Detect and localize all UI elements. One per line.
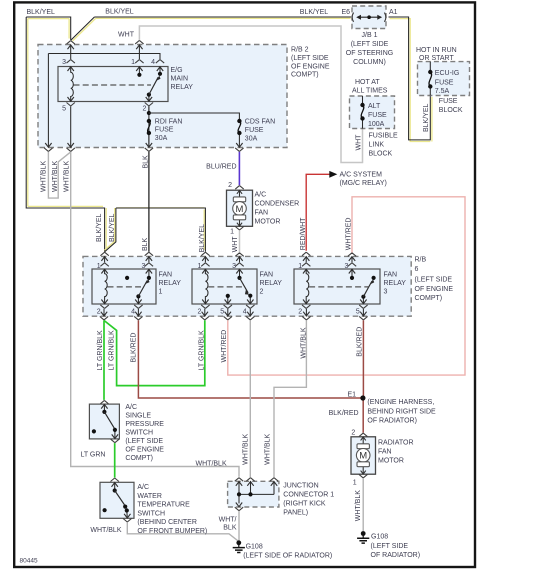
wire BLU/RED from CDS fan fuse to A/C condenser fan motor	[206, 152, 239, 186]
svg-text:BLK: BLK	[142, 155, 149, 169]
wire WHT inside R/B 2 from pin 1 node to E/G relay pin 4 and left exit	[48, 45, 160, 148]
svg-text:1: 1	[298, 263, 302, 270]
svg-text:5: 5	[220, 309, 224, 316]
connector terminals entering R/B 6 top	[100, 252, 356, 262]
wire LT GRN/BLK from fan relay 1 pin 2 to A/C single pressure switch	[97, 320, 104, 400]
svg-text:BLK/YEL: BLK/YEL	[27, 9, 56, 16]
svg-text:WHT/BLK: WHT/BLK	[41, 161, 48, 192]
E/G main relay coil (pins 3-5)	[71, 67, 74, 102]
svg-text:4: 4	[243, 309, 247, 316]
svg-text:RDI FAN: RDI FAN	[155, 118, 183, 125]
wire WHT from A/C condenser fan motor to fan relay 2 pin 3	[232, 230, 240, 252]
svg-text:FUSE: FUSE	[368, 112, 387, 119]
svg-text:5: 5	[356, 309, 360, 316]
svg-text:LT GRN/BLK: LT GRN/BLK	[199, 330, 206, 371]
svg-text:OF RADIATOR): OF RADIATOR)	[367, 418, 417, 425]
svg-text:MAIN: MAIN	[171, 76, 189, 83]
relay: fan relay 1 box	[92, 269, 181, 304]
svg-text:BLK/YEL: BLK/YEL	[199, 224, 206, 253]
svg-text:BEHIND RIGHT SIDE: BEHIND RIGHT SIDE	[367, 408, 436, 415]
svg-text:WHT/BLK: WHT/BLK	[52, 161, 59, 192]
connector terminals leaving R/B 2 bottom	[44, 143, 243, 151]
svg-text:COMPT): COMPT)	[125, 455, 153, 462]
svg-text:OR START: OR START	[419, 55, 454, 62]
E/G main relay pin terminals and numbers	[62, 59, 164, 113]
svg-text:PANEL): PANEL)	[283, 509, 308, 516]
fuse ALT 100A in fusible link block	[350, 79, 399, 158]
svg-text:3: 3	[141, 263, 145, 270]
svg-text:A/C: A/C	[255, 191, 267, 198]
svg-text:LT GRN/BLK: LT GRN/BLK	[97, 330, 104, 371]
svg-text:WHT/BLK: WHT/BLK	[196, 460, 227, 467]
svg-text:BLK/RED: BLK/RED	[131, 333, 138, 363]
fan relay 1 terminals and pin numbers	[97, 263, 153, 316]
fan relay 2 terminals and pin numbers	[197, 263, 254, 316]
svg-text:(ENGINE HARNESS,: (ENGINE HARNESS,	[367, 399, 434, 406]
fan relay 2 coil (pins 1-2)	[205, 269, 208, 304]
svg-text:WHT/BLK: WHT/BLK	[265, 433, 272, 464]
svg-text:WHT/: WHT/	[219, 516, 237, 523]
svg-text:BLK/YEL: BLK/YEL	[109, 213, 116, 242]
svg-text:2: 2	[197, 309, 201, 316]
svg-text:COMPT): COMPT)	[415, 295, 443, 302]
ground G108 (left side of radiator) at radiator fan motor	[357, 531, 420, 559]
svg-text:ALT: ALT	[368, 103, 381, 110]
svg-text:A/C SYSTEM: A/C SYSTEM	[340, 171, 383, 178]
wire WHT from ALT fuse to E/G main relay pin 1	[118, 26, 362, 163]
wire BLK/YEL from E/G main relay pin 3 to fan relay 1 pin 1 (left loop)	[26, 9, 106, 252]
svg-text:WATER: WATER	[137, 493, 162, 500]
svg-text:E1: E1	[347, 391, 356, 398]
motor: A/C condenser fan motor	[227, 182, 300, 236]
svg-text:RELAY: RELAY	[384, 280, 407, 287]
wire WHT/BLK from fan relay 2 pin 4 to junction connector 1	[242, 320, 250, 477]
E/G main relay switch (pins 4-2) with contact dots	[74, 67, 163, 102]
svg-text:COMPT): COMPT)	[291, 72, 319, 79]
svg-text:LINK: LINK	[369, 141, 385, 148]
svg-text:FUSE: FUSE	[245, 127, 264, 134]
wire BLK/RED from fan relay 3 pin 5 through node E1 to radiator fan motor	[329, 320, 364, 432]
svg-text:E6: E6	[342, 9, 351, 16]
wire WHT/BLK from junction connector 1 to ground G108	[219, 511, 239, 541]
fan relay 3 terminals and pin numbers	[298, 263, 367, 316]
svg-text:RADIATOR: RADIATOR	[378, 439, 414, 446]
svg-text:BLK/YEL: BLK/YEL	[423, 103, 430, 132]
connector terminals entering R/B 2 (pin 3 and pin 1 feeds)	[68, 40, 144, 49]
svg-text:WHT/BLK: WHT/BLK	[242, 433, 249, 464]
svg-text:(LEFT SIDE: (LEFT SIDE	[415, 276, 453, 283]
svg-text:BLOCK: BLOCK	[439, 107, 463, 114]
svg-text:LT GRN/BLK: LT GRN/BLK	[109, 330, 116, 371]
svg-text:3: 3	[62, 59, 66, 66]
svg-text:WHT/BLK: WHT/BLK	[355, 490, 362, 521]
svg-text:1: 1	[159, 289, 163, 296]
relay/junction block R/B 2 (left side of engine compt)	[38, 45, 330, 148]
svg-text:OF FRONT BUMPER): OF FRONT BUMPER)	[137, 528, 207, 535]
svg-text:E/G: E/G	[171, 67, 183, 74]
wire WHT/RED loop from fan relay 3 pin 3 to BLK/RED splice	[346, 197, 465, 375]
svg-text:M: M	[359, 451, 367, 462]
svg-text:6: 6	[415, 266, 419, 273]
svg-text:PRESSURE: PRESSURE	[125, 421, 164, 428]
svg-text:FUSE: FUSE	[435, 79, 454, 86]
svg-text:(LEFT SIDE: (LEFT SIDE	[291, 55, 329, 62]
svg-text:BLK: BLK	[223, 525, 237, 532]
svg-text:2: 2	[228, 182, 232, 189]
svg-text:80445: 80445	[20, 558, 38, 565]
svg-text:WHT: WHT	[232, 236, 239, 253]
switch: A/C water temperature switch	[100, 482, 207, 535]
in-line connector on LT GRN wire	[111, 478, 119, 482]
node: merge fork of BLK/YEL wires above R/B 2 pin 3	[67, 41, 75, 45]
svg-text:OF ENGINE: OF ENGINE	[125, 446, 164, 453]
svg-text:SWITCH: SWITCH	[137, 510, 165, 517]
fan relay 1 switch (pins 3-4) with contact dots	[108, 269, 151, 304]
svg-text:WHT/BLK: WHT/BLK	[90, 527, 121, 534]
svg-text:ALL TIMES: ALL TIMES	[352, 87, 388, 94]
fan relay 1 coil (pins 1-2)	[105, 269, 108, 304]
svg-text:BLK/RED: BLK/RED	[356, 327, 363, 357]
svg-text:G108: G108	[371, 533, 388, 540]
svg-text:1: 1	[131, 59, 135, 66]
svg-text:(BEHIND CENTER: (BEHIND CENTER	[137, 519, 197, 526]
svg-text:BLK/YEL: BLK/YEL	[105, 9, 134, 16]
wire BLK from RDI fan fuse to fan relay 1 pin 3	[142, 152, 149, 252]
svg-text:3: 3	[344, 263, 348, 270]
wire LT GRN from A/C single pressure switch to in-line connector	[80, 443, 114, 478]
svg-text:RELAY: RELAY	[159, 280, 182, 287]
wire WHT/BLK from radiator fan motor to ground G108	[355, 478, 363, 531]
wire WHT/BLK long run from E/G main relay pin 5 to junction connector 1	[64, 152, 239, 477]
svg-text:A/C: A/C	[137, 484, 149, 491]
svg-text:CONNECTOR 1: CONNECTOR 1	[283, 491, 334, 498]
svg-text:A/C: A/C	[125, 404, 137, 411]
wire BLK/YEL from J/B 1 feed, top horizontal run	[71, 9, 432, 142]
svg-text:BLK/RED: BLK/RED	[329, 410, 359, 417]
svg-text:(LEFT SIDE: (LEFT SIDE	[125, 438, 163, 445]
svg-text:2: 2	[260, 289, 264, 296]
svg-text:OF ENGINE: OF ENGINE	[415, 286, 454, 293]
node E1 (engine harness, behind right side of radiator)	[347, 391, 436, 424]
wire WHT/RED from fan relay 2 pin 5 to BLK/RED splice	[221, 320, 364, 375]
svg-text:2: 2	[298, 309, 302, 316]
fuse ECU-IG 7.5A in fuse block	[416, 47, 470, 114]
switch: A/C single pressure switch	[89, 400, 164, 461]
svg-text:(MG/C RELAY): (MG/C RELAY)	[340, 180, 387, 187]
svg-text:CDS FAN: CDS FAN	[245, 119, 275, 126]
svg-text:BLU/RED: BLU/RED	[206, 163, 236, 170]
svg-text:A1: A1	[389, 9, 398, 16]
svg-text:(LEFT SIDE: (LEFT SIDE	[371, 543, 409, 550]
svg-text:RED/WHT: RED/WHT	[300, 217, 307, 250]
svg-text:WHT: WHT	[356, 134, 363, 151]
fuse CDS FAN FUSE 30A	[149, 113, 275, 147]
svg-text:G108: G108	[246, 543, 263, 550]
svg-text:1: 1	[353, 480, 357, 487]
svg-text:30A: 30A	[245, 135, 258, 142]
wire RED/WHT from A/C system (MG/C relay) to fan relay 3 pin 1	[300, 174, 330, 251]
svg-text:BLOCK: BLOCK	[369, 150, 393, 157]
svg-text:OF RADIATOR): OF RADIATOR)	[371, 552, 421, 559]
relay: fan relay 3 box	[294, 269, 406, 304]
svg-text:R/B 2: R/B 2	[291, 47, 309, 54]
svg-text:WHT/BLK: WHT/BLK	[64, 161, 71, 192]
svg-text:RELAY: RELAY	[171, 84, 194, 91]
svg-text:4: 4	[151, 59, 155, 66]
fuse RDI FAN FUSE 30A	[147, 106, 183, 147]
svg-text:(RIGHT KICK: (RIGHT KICK	[283, 500, 326, 507]
svg-text:HOT IN RUN: HOT IN RUN	[416, 47, 457, 54]
svg-text:BLK: BLK	[142, 237, 149, 251]
svg-text:MOTOR: MOTOR	[255, 218, 281, 225]
svg-text:(LEFT SIDE: (LEFT SIDE	[351, 41, 389, 48]
svg-text:CONDENSER: CONDENSER	[255, 200, 300, 207]
arrow to A/C system (MG/C relay)	[329, 171, 387, 187]
svg-text:HOT AT: HOT AT	[355, 79, 380, 86]
connector terminals leaving R/B 6 bottom	[100, 309, 368, 320]
svg-text:RELAY: RELAY	[260, 280, 283, 287]
svg-text:3: 3	[384, 289, 388, 296]
svg-text:R/B: R/B	[415, 257, 427, 264]
svg-text:TEMPERATURE: TEMPERATURE	[137, 502, 190, 509]
svg-text:JUNCTION: JUNCTION	[283, 482, 318, 489]
svg-text:FUSE: FUSE	[155, 127, 174, 134]
motor: radiator fan motor	[351, 430, 414, 487]
svg-text:WHT/RED: WHT/RED	[221, 330, 228, 363]
svg-text:OF STEERING: OF STEERING	[346, 50, 393, 57]
svg-text:OF ENGINE: OF ENGINE	[291, 63, 330, 70]
svg-text:100A: 100A	[368, 121, 385, 128]
connector J/B 1 (left side of steering column) E6/A1	[342, 6, 398, 66]
svg-text:WHT/RED: WHT/RED	[346, 218, 353, 251]
svg-text:3: 3	[232, 263, 236, 270]
wire WHT/BLK from fan relay 3 pin 2 to junction connector 1	[265, 320, 308, 477]
svg-text:4: 4	[131, 309, 135, 316]
svg-text:2: 2	[97, 309, 101, 316]
wire BLK/RED from fan relay 1 pin 4 to node E1	[131, 320, 363, 398]
wire WHT/BLK from A/C water temperature switch to ground G108	[90, 522, 238, 541]
svg-text:J/B 1: J/B 1	[362, 32, 378, 39]
op: E/G main relay U-box	[58, 67, 193, 102]
fan relay 3 switch (pin 5 arm to open contact)	[309, 269, 376, 304]
ground G108 (left side of radiator) at junction connector	[233, 540, 333, 559]
svg-text:FAN: FAN	[159, 272, 173, 279]
svg-text:1: 1	[197, 263, 201, 270]
svg-text:7.5A: 7.5A	[435, 88, 450, 95]
svg-text:ECU-IG: ECU-IG	[435, 70, 460, 77]
svg-text:BLK/YEL: BLK/YEL	[96, 213, 103, 242]
svg-text:LT GRN: LT GRN	[80, 451, 105, 458]
svg-text:FUSIBLE: FUSIBLE	[369, 132, 399, 139]
svg-text:1: 1	[230, 228, 234, 235]
fan relay 3 coil (pins 1-2)	[306, 269, 309, 304]
svg-text:FAN: FAN	[260, 272, 274, 279]
svg-text:(LEFT SIDE OF RADIATOR): (LEFT SIDE OF RADIATOR)	[243, 553, 332, 560]
svg-text:FAN: FAN	[384, 272, 398, 279]
svg-text:FAN: FAN	[255, 209, 269, 216]
svg-text:WHT: WHT	[118, 32, 135, 39]
svg-text:2: 2	[142, 106, 146, 113]
wire LT GRN/BLK loop from fan relay 2 pin 2 merging at fan relay 1 pin 2	[104, 320, 206, 385]
svg-text:WHT/BLK: WHT/BLK	[300, 327, 307, 358]
svg-text:BLK/YEL: BLK/YEL	[300, 9, 329, 16]
svg-text:FAN: FAN	[378, 448, 392, 455]
svg-text:5: 5	[62, 106, 66, 113]
svg-text:SINGLE: SINGLE	[125, 412, 151, 419]
wire WHT/BLK from R/B 2 (x=48) with U-loop splice	[41, 152, 71, 198]
svg-text:2: 2	[351, 430, 355, 437]
svg-text:FUSE: FUSE	[439, 98, 458, 105]
relay: fan relay 2 box	[192, 269, 282, 304]
relay/junction block R/B 6 (left side of engine compt)	[83, 256, 453, 316]
svg-text:1: 1	[97, 263, 101, 270]
wire BLK/YEL bridge from fan relay 1 pin 1 to fan relay 2 pin 1	[104, 208, 205, 253]
svg-text:MOTOR: MOTOR	[378, 457, 404, 464]
svg-text:SWITCH: SWITCH	[125, 429, 153, 436]
svg-text:30A: 30A	[155, 135, 168, 142]
connector: junction connector 1 (right kick panel)	[228, 478, 335, 517]
svg-text:COLUMN): COLUMN)	[353, 59, 386, 66]
svg-text:M: M	[236, 204, 244, 215]
fan relay 2 switch (pins 3-4) and pin 5 contact	[208, 269, 252, 304]
